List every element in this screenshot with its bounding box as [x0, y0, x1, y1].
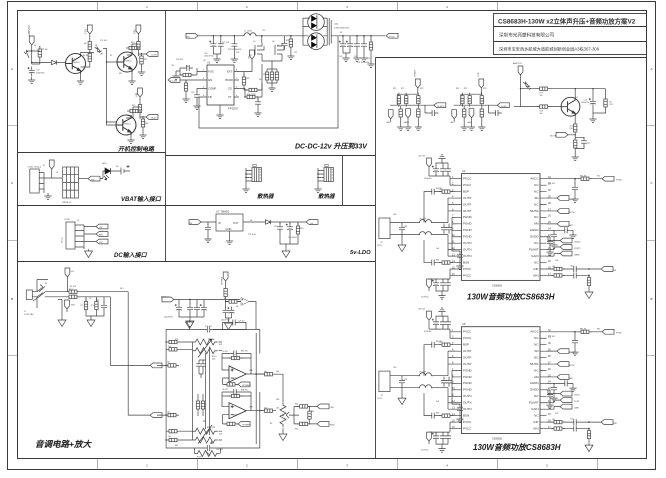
svg-text:GVDD2: GVDD2 — [574, 241, 581, 243]
svg-text:J4: J4 — [77, 220, 79, 222]
svg-text:C30: C30 — [339, 56, 342, 58]
svg-text:C54: C54 — [404, 379, 407, 381]
svg-text:R12: R12 — [144, 59, 147, 61]
svg-text:LIN: LIN — [71, 271, 75, 273]
svg-text:Q6: Q6 — [272, 41, 275, 43]
svg-text:1000uF/25v: 1000uF/25v — [204, 56, 214, 58]
svg-text:R8: R8 — [84, 43, 86, 45]
svg-text:R 2: R 2 — [81, 305, 84, 307]
svg-text:R11: R11 — [119, 73, 122, 75]
svg-text:DC-EN: DC-EN — [171, 81, 178, 83]
svg-text:R44: R44 — [295, 404, 298, 406]
svg-text:CS8683H-130W x2立体声升压+音频功放方案V2: CS8683H-130W x2立体声升压+音频功放方案V2 — [498, 16, 636, 25]
svg-text:47uF/50v: 47uF/50v — [421, 297, 429, 299]
svg-text:4558: 4558 — [233, 378, 237, 380]
svg-text:L3 10uH: L3 10uH — [419, 372, 426, 374]
svg-text:R6: R6 — [224, 298, 226, 300]
svg-text:深圳市光亮盛科技有限公司: 深圳市光亮盛科技有限公司 — [499, 32, 555, 39]
svg-text:R33: R33 — [436, 260, 439, 262]
svg-text:C22 10uF: C22 10uF — [248, 234, 257, 236]
svg-text:503: 503 — [219, 433, 222, 435]
svg-text:R1 4.7k: R1 4.7k — [70, 286, 76, 288]
svg-text:B503: B503 — [197, 457, 201, 459]
svg-text:R30: R30 — [570, 128, 573, 130]
svg-text:VIN: VIN — [91, 179, 95, 181]
svg-text:C2: C2 — [89, 298, 91, 300]
svg-text:20k: 20k — [264, 371, 267, 373]
svg-text:B5: B5 — [270, 423, 272, 425]
svg-text:GAIN: GAIN — [574, 407, 579, 410]
svg-text:C23 470uF: C23 470uF — [288, 237, 298, 239]
svg-text:R9 10k: R9 10k — [83, 55, 89, 57]
svg-text:C29 104: C29 104 — [205, 326, 212, 328]
svg-text:C73: C73 — [570, 419, 573, 421]
svg-text:C14: C14 — [584, 100, 587, 102]
svg-text:开机控制电路: 开机控制电路 — [118, 145, 155, 153]
svg-text:C46: C46 — [393, 214, 396, 216]
svg-text:D5: D5 — [340, 32, 342, 34]
svg-text:C48 C49: C48 C49 — [418, 309, 425, 311]
svg-text:PA-EN: PA-EN — [569, 198, 575, 201]
svg-text:B513 50K: B513 50K — [207, 427, 216, 429]
svg-text:GVDD: GVDD — [574, 395, 580, 397]
svg-text:R14: R14 — [145, 123, 148, 125]
svg-text:GAIN2: GAIN2 — [574, 253, 580, 256]
svg-text:PLINT: PLINT — [574, 401, 580, 403]
svg-text:U2: U2 — [462, 169, 466, 173]
svg-text:COMP: COMP — [208, 86, 216, 90]
svg-text:AM: AM — [451, 121, 454, 124]
svg-text:GVDD2: GVDD2 — [415, 69, 417, 77]
svg-text:R41: R41 — [175, 445, 178, 447]
svg-text:10k: 10k — [167, 411, 170, 413]
svg-text:100uF/25v: 100uF/25v — [164, 317, 173, 319]
svg-text:CS8683B: CS8683B — [492, 286, 502, 288]
svg-text:VBAT输入接口: VBAT输入接口 — [121, 195, 162, 203]
svg-text:D2: D2 — [34, 45, 36, 47]
svg-text:R17: R17 — [249, 55, 252, 57]
svg-text:R33: R33 — [175, 339, 178, 341]
svg-text:PA-EN: PA-EN — [569, 351, 575, 354]
svg-text:10k: 10k — [168, 346, 171, 348]
svg-text:R75: R75 — [464, 88, 467, 90]
svg-text:FP5207: FP5207 — [228, 107, 239, 111]
svg-text:B: B — [650, 297, 652, 301]
svg-text:BVDD: BVDD — [226, 78, 234, 82]
svg-text:STPS2080 DKT: STPS2080 DKT — [334, 27, 350, 29]
svg-text:C22: C22 — [274, 226, 277, 228]
svg-text:R45: R45 — [295, 429, 298, 431]
svg-text:R5 10k: R5 10k — [42, 49, 48, 51]
svg-text:4558: 4558 — [233, 415, 237, 417]
svg-text:AMPVCC: AMPVCC — [513, 62, 523, 65]
svg-text:C63: C63 — [570, 266, 573, 268]
svg-text:R26: R26 — [300, 228, 303, 230]
svg-text:2N5551: 2N5551 — [123, 124, 131, 126]
svg-text:104: 104 — [276, 408, 279, 410]
svg-text:C32 470uF/50v: C32 470uF/50v — [357, 62, 369, 64]
svg-text:C11 104: C11 104 — [100, 40, 107, 42]
svg-text:CON4 GX16-4: CON4 GX16-4 — [28, 167, 42, 169]
svg-text:C61 104: C61 104 — [548, 183, 555, 185]
svg-text:L1 10uH: L1 10uH — [244, 31, 252, 33]
svg-text:深圳市宝安西乡航城大道航城创新创业园A3栋307-309: 深圳市宝安西乡航城大道航城创新创业园A3栋307-309 — [499, 46, 600, 53]
svg-text:PLINT: PLINT — [501, 106, 508, 108]
svg-text:VT: VT — [228, 95, 232, 99]
svg-text:OUT: OUT — [233, 221, 239, 225]
svg-text:STP15N6065F: STP15N6065F — [228, 49, 242, 51]
svg-text:D6: D6 — [116, 166, 118, 168]
svg-text:R73: R73 — [420, 88, 423, 90]
svg-text:R15: R15 — [186, 66, 189, 68]
svg-text:47uF/50v: 47uF/50v — [424, 331, 432, 333]
svg-text:R61 1R: R61 1R — [580, 329, 587, 331]
svg-text:FB: FB — [208, 95, 212, 99]
svg-text:R10: R10 — [131, 42, 134, 44]
svg-text:47uF/50v: 47uF/50v — [421, 450, 429, 452]
svg-text:CS: CS — [228, 86, 232, 90]
svg-text:R46: R46 — [311, 411, 314, 413]
svg-text:C56: C56 — [393, 367, 396, 369]
svg-text:PLINT2: PLINT2 — [437, 106, 445, 108]
svg-text:D4: D4 — [250, 220, 252, 222]
svg-text:PVDD: PVDD — [616, 333, 622, 335]
svg-text:PVDD: PVDD — [389, 37, 395, 39]
svg-text:Q5: Q5 — [253, 41, 256, 43]
svg-text:RIN: RIN — [99, 235, 103, 237]
svg-text:10k: 10k — [552, 266, 555, 268]
svg-text:DC-EN: DC-EN — [151, 55, 157, 57]
svg-text:L2 10uH: L2 10uH — [419, 219, 426, 221]
svg-text:C18 104: C18 104 — [176, 59, 183, 61]
svg-text:47uF/50v: 47uF/50v — [424, 178, 432, 180]
svg-text:C16: C16 — [587, 143, 590, 145]
svg-text:R7: R7 — [110, 55, 112, 57]
svg-text:R3 2: R3 2 — [69, 289, 73, 291]
svg-text:MUTE: MUTE — [569, 365, 576, 367]
svg-text:FOS: FOS — [208, 69, 214, 73]
svg-text:B: B — [11, 297, 13, 301]
svg-text:OUT2: OUT2 — [377, 398, 382, 400]
svg-text:R62: R62 — [597, 329, 600, 331]
svg-text:2N5551: 2N5551 — [72, 62, 80, 64]
svg-text:C71 104: C71 104 — [548, 336, 555, 338]
svg-text:D3: D3 — [95, 45, 97, 47]
svg-text:U4: U4 — [236, 306, 238, 308]
svg-text:R43: R43 — [436, 413, 439, 415]
svg-text:DC 2.1: DC 2.1 — [62, 236, 64, 243]
svg-text:K1: K1 — [45, 283, 47, 285]
svg-text:R19: R19 — [259, 79, 262, 81]
svg-text:AMPVCC: AMPVCC — [27, 25, 31, 36]
svg-text:10k: 10k — [540, 95, 543, 97]
svg-text:OUT1: OUT1 — [377, 245, 382, 247]
svg-text:R13: R13 — [132, 105, 135, 107]
svg-text:OPVREF2: OPVREF2 — [242, 385, 251, 387]
svg-text:C20: C20 — [191, 92, 194, 94]
svg-text:R22: R22 — [286, 40, 289, 42]
svg-text:CS8683B: CS8683B — [492, 439, 502, 441]
svg-text:LIN: LIN — [99, 227, 103, 229]
svg-text:R51 1R: R51 1R — [580, 176, 587, 178]
svg-text:VIN: VIN — [99, 242, 103, 244]
svg-text:R42 NC: R42 NC — [436, 341, 443, 343]
svg-text:RIN: RIN — [71, 305, 75, 307]
svg-text:R 5: R 5 — [91, 305, 94, 307]
svg-text:PVDD: PVDD — [616, 180, 622, 182]
svg-text:1N5408 x8: 1N5408 x8 — [62, 202, 71, 204]
svg-text:DC-DC-12v 升压到33V: DC-DC-12v 升压到33V — [295, 143, 368, 151]
svg-text:10k: 10k — [167, 362, 170, 364]
svg-text:10k: 10k — [552, 419, 555, 421]
svg-text:A: A — [11, 67, 13, 71]
svg-text:EN: EN — [208, 78, 212, 82]
svg-text:C6 473: C6 473 — [222, 389, 228, 391]
svg-text:3.5PK JAC: 3.5PK JAC — [24, 313, 34, 316]
svg-text:DC输入接口: DC输入接口 — [114, 251, 148, 259]
svg-text:100uF/25v: 100uF/25v — [581, 102, 590, 104]
svg-text:4.7k: 4.7k — [570, 126, 573, 128]
svg-text:130W音频功放CS8683H: 130W音频功放CS8683H — [467, 293, 555, 302]
svg-text:OPVREF2: OPVREF2 — [242, 425, 251, 427]
svg-text:AM2: AM2 — [387, 121, 391, 124]
svg-text:音调电路+放大: 音调电路+放大 — [35, 439, 92, 449]
svg-text:U1: U1 — [207, 61, 211, 65]
svg-text:INL: INL — [614, 270, 617, 272]
svg-text:散热器: 散热器 — [257, 193, 275, 200]
svg-text:C38 C39: C38 C39 — [418, 156, 425, 158]
svg-text:C17: C17 — [203, 60, 206, 62]
svg-text:C64: C64 — [555, 260, 558, 262]
svg-text:10UF/25v: 10UF/25v — [36, 73, 45, 75]
svg-text:LED1: LED1 — [102, 163, 107, 165]
svg-text:CON5: CON5 — [64, 219, 71, 221]
svg-text:Y1N: Y1N — [84, 29, 88, 34]
svg-text:CGD: CGD — [478, 72, 480, 77]
svg-text:130W音频功放CS8683H: 130W音频功放CS8683H — [473, 443, 561, 452]
svg-text:503: 503 — [219, 344, 222, 346]
svg-text:R29: R29 — [610, 104, 613, 106]
svg-text:PA-EN: PA-EN — [151, 117, 157, 120]
svg-text:R2: R2 — [97, 300, 99, 302]
svg-text:GAIN: GAIN — [467, 121, 472, 124]
svg-text:C27 104: C27 104 — [222, 42, 229, 44]
svg-text:R31 10k: R31 10k — [208, 339, 215, 341]
svg-text:A: A — [650, 67, 652, 71]
svg-text:R32 NC: R32 NC — [436, 188, 443, 190]
svg-text:R18: R18 — [246, 78, 249, 80]
svg-text:2N5551: 2N5551 — [124, 61, 132, 63]
svg-text:R4 2: R4 2 — [120, 288, 124, 290]
svg-text:散热器: 散热器 — [318, 193, 336, 200]
svg-text:+5V: +5V — [310, 223, 314, 225]
svg-text:R52: R52 — [597, 176, 600, 178]
svg-text:EXT: EXT — [227, 69, 233, 73]
svg-text:R74: R74 — [456, 88, 459, 90]
svg-text:10k: 10k — [540, 113, 543, 115]
svg-text:GND: GND — [226, 227, 232, 231]
svg-text:PLINT2: PLINT2 — [574, 248, 580, 250]
svg-text:5v-LDO: 5v-LDO — [350, 250, 371, 256]
svg-text:C24 104: C24 104 — [216, 449, 223, 451]
svg-text:C25: C25 — [262, 30, 265, 32]
svg-text:R76: R76 — [483, 88, 486, 90]
svg-text:C21: C21 — [294, 52, 297, 54]
svg-text:C19: C19 — [171, 65, 174, 67]
svg-text:U5: U5 — [462, 322, 466, 326]
svg-text:R72: R72 — [401, 88, 404, 90]
svg-text:20k: 20k — [264, 408, 267, 410]
svg-text:AMPVCC: AMPVCC — [161, 295, 170, 298]
svg-text:C5 473: C5 473 — [222, 351, 228, 353]
svg-text:VIN: VIN — [189, 223, 193, 225]
svg-text:VIN: VIN — [186, 37, 190, 39]
svg-text:F1: F1 — [43, 165, 45, 167]
svg-text:R71: R71 — [393, 88, 396, 90]
svg-text:MUTE: MUTE — [550, 136, 557, 138]
svg-text:C74: C74 — [555, 413, 558, 415]
svg-text:R19: R19 — [263, 74, 266, 76]
svg-text:10k: 10k — [168, 436, 171, 438]
svg-text:R35 75k: R35 75k — [241, 351, 248, 353]
svg-text:C28: C28 — [236, 52, 239, 54]
svg-text:MUTE: MUTE — [569, 212, 576, 214]
svg-text:U7 78M05: U7 78M05 — [216, 210, 229, 214]
svg-text:D1: D1 — [56, 172, 58, 174]
svg-text:IN: IN — [218, 221, 221, 225]
svg-text:C44: C44 — [404, 226, 407, 228]
svg-text:R24 0.05R: R24 0.05R — [247, 94, 256, 96]
svg-text:R36 75k: R36 75k — [241, 390, 248, 392]
svg-text:104: 104 — [276, 371, 279, 373]
svg-text:GAIN2: GAIN2 — [404, 121, 410, 124]
